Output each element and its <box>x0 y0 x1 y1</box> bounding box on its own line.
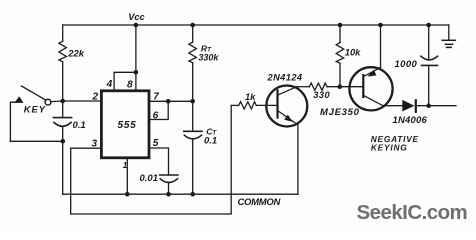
wire 22k branch top <box>62 25 64 41</box>
wire pin6 <box>149 101 168 119</box>
capacitor CT 0.1 <box>184 131 202 139</box>
ground <box>442 40 455 47</box>
resistor RT 330k <box>189 42 197 63</box>
emitter line with arrow <box>278 111 298 125</box>
wire cap to lower node <box>62 126 64 141</box>
node diode/cap dot <box>426 103 431 108</box>
svg-text:8: 8 <box>127 79 133 90</box>
diode D1 1N4006 <box>383 105 402 107</box>
node pin1 rail dot <box>125 192 130 197</box>
svg-text:4: 4 <box>106 79 113 90</box>
transistor Q2 MJE350 <box>349 67 392 110</box>
resistor R 22k <box>59 41 67 62</box>
wire pin5 <box>149 148 169 175</box>
wire RT branch top <box>192 25 194 42</box>
svg-text:MJE350: MJE350 <box>320 107 360 118</box>
IC U1 555 box <box>101 91 149 158</box>
svg-text:330: 330 <box>313 90 330 100</box>
resistor R 330 <box>309 83 327 90</box>
svg-text:22k: 22k <box>67 48 85 59</box>
svg-text:COMMON: COMMON <box>238 197 282 208</box>
svg-text:0.1: 0.1 <box>204 136 217 147</box>
collector line <box>364 96 383 106</box>
node pin6 junction dot <box>166 99 171 104</box>
node pin7 dot <box>190 99 195 104</box>
node key return dot <box>61 139 66 144</box>
svg-text:6: 6 <box>153 111 159 122</box>
capacitor C 1000 <box>428 25 430 60</box>
capacitor C 0.01 <box>160 175 178 183</box>
svg-text:1000: 1000 <box>395 59 418 70</box>
node pin8 bracket dot <box>134 70 139 75</box>
node 10k/base dot <box>338 84 343 89</box>
node CT rail dot <box>190 192 195 197</box>
svg-text:7: 7 <box>153 92 159 103</box>
svg-text:1: 1 <box>123 161 128 170</box>
collector line <box>278 87 297 96</box>
resistor R 1k <box>231 104 238 106</box>
wire pin4-8 bracket <box>114 72 136 91</box>
resistor R 10k <box>336 43 344 64</box>
wire emitter to Vcc rail <box>380 25 382 68</box>
wire ground stub <box>448 25 450 40</box>
svg-text:0.01: 0.01 <box>140 173 159 184</box>
wire pin7 <box>149 100 193 102</box>
wire 1k to base <box>256 104 277 106</box>
svg-text:2: 2 <box>91 92 98 103</box>
wire common rail up to 2N4124 emitter <box>297 125 299 195</box>
svg-text:SeekIC.com: SeekIC.com <box>357 201 468 224</box>
node 0.01 rail dot <box>166 192 171 197</box>
wire 22k to key node <box>62 62 64 101</box>
emitter line with arrow to bar <box>364 68 381 77</box>
svg-text:1N4006: 1N4006 <box>393 115 428 126</box>
wire 10k branch <box>339 25 341 43</box>
wire diode to output <box>417 105 456 107</box>
svg-text:330k: 330k <box>198 53 219 63</box>
svg-text:KEY: KEY <box>24 104 46 114</box>
svg-text:3: 3 <box>91 139 97 150</box>
node Vcc rail dot at 1000 <box>426 23 431 28</box>
svg-text:KEYING: KEYING <box>371 143 408 153</box>
svg-text:0.1: 0.1 <box>73 120 86 131</box>
node key/pin2 dot <box>60 99 65 104</box>
wire RT to pin7 node <box>192 63 194 102</box>
wire node to cap <box>62 101 64 118</box>
wire Vcc to pin8 <box>135 25 137 72</box>
wire CT to common rail <box>192 139 194 195</box>
wire pin7 node to CT <box>192 101 194 131</box>
wire common rail <box>63 193 298 195</box>
wire 0.01 to common rail <box>168 182 170 194</box>
transistor Q1 2N4124 <box>266 86 307 127</box>
svg-text:1k: 1k <box>245 92 256 102</box>
node Vcc rail dot at RT <box>190 23 195 28</box>
wire pin2 <box>63 100 101 102</box>
wire 10k to node <box>339 63 341 86</box>
wire 330 to node <box>327 86 363 88</box>
wire top Vcc rail <box>63 24 449 26</box>
wire lower node down to common rail <box>62 141 64 194</box>
wire pin3 output <box>71 105 232 214</box>
node Vcc rail dot at 555 <box>134 23 139 28</box>
node Vcc rail dot at emitter <box>378 23 383 28</box>
svg-text:5: 5 <box>153 138 159 149</box>
node Vcc rail dot at 10k <box>338 23 343 28</box>
capacitor C 0.1 left <box>53 118 71 127</box>
wire pin1 to common rail <box>126 158 128 194</box>
svg-text:10k: 10k <box>345 47 361 57</box>
key switch KEY <box>10 140 62 142</box>
svg-text:Vcc: Vcc <box>128 12 145 22</box>
svg-text:2N4124: 2N4124 <box>267 73 303 83</box>
svg-text:555: 555 <box>117 120 136 131</box>
